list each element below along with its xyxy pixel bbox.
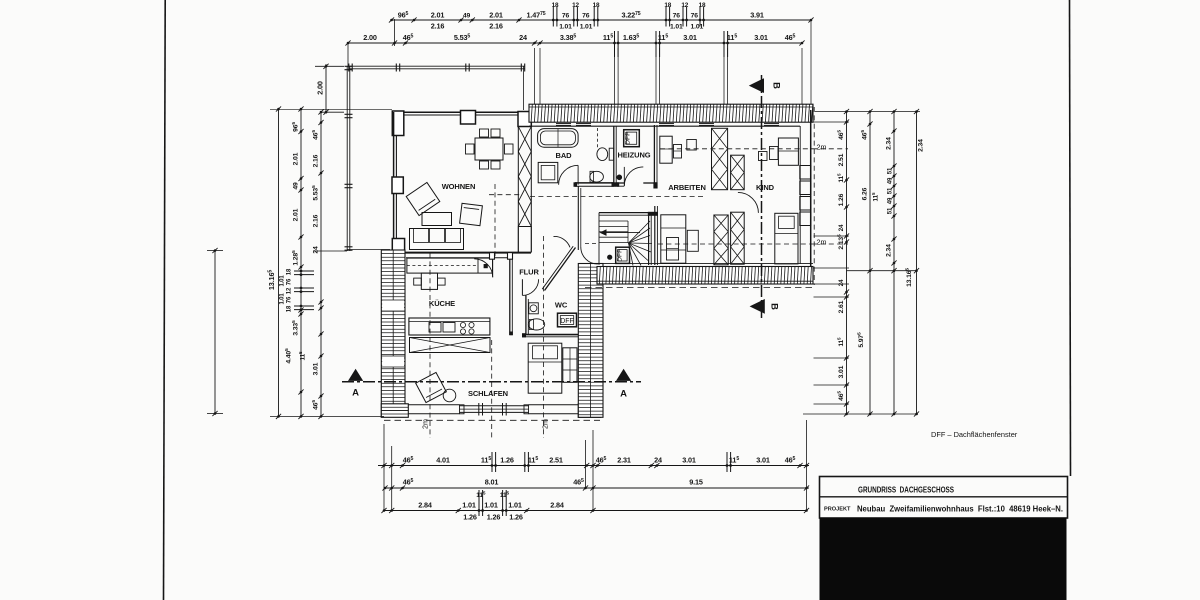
svg-text:115: 115 [836,173,845,182]
svg-text:1.635: 1.635 [623,33,640,42]
right dim bottom connector [803,413,918,415]
coffee table [422,213,452,226]
dimension row B values [403,478,703,487]
wall stairwell right outer [655,206,658,265]
side square arbeiten [687,230,698,251]
wall band bottom-right corner (hatched) [578,404,600,418]
DFF box WC [558,313,577,327]
svg-text:2m: 2m [817,238,827,247]
svg-text:76: 76 [582,13,590,20]
svg-text:115: 115 [481,456,491,465]
bed KIND [775,213,798,264]
dimension row B line and ticks [382,485,809,490]
wall BAD-HEIZUNG [614,126,616,186]
WC toilet [528,319,544,330]
wall cap BAD bottom right [612,182,617,187]
dashed window axis [491,340,493,438]
DFF box HEIZUNG [624,130,640,147]
dimension row 1 values [398,2,764,31]
bottom wall window right [529,405,579,414]
BAD toilet [590,171,604,182]
sill line above bottom band [585,263,813,265]
BAD washbasin [597,148,614,161]
roof overhang dashed bottom [384,419,600,421]
svg-text:1.01: 1.01 [280,275,286,287]
svg-text:KÜCHE: KÜCHE [429,299,455,308]
svg-text:18: 18 [287,268,293,275]
wall line below roof band [529,125,800,127]
dashed 2m line WOHNEN horizontal [489,194,521,196]
svg-text:WOHNEN: WOHNEN [442,182,476,191]
svg-text:2.01: 2.01 [293,152,300,165]
dimension row A line and ticks [378,452,809,472]
post WOHNEN top-mid [461,111,476,125]
svg-text:51: 51 [888,167,894,174]
desk arbeiten top [660,136,672,163]
svg-text:24: 24 [838,224,845,231]
right dim mid connector [847,270,918,272]
right extension stubs [814,122,850,404]
svg-text:GRUNDRISS DACHGESCHOSS: GRUNDRISS DACHGESCHOSS [858,486,954,495]
terrace top railing [349,64,525,72]
svg-text:76: 76 [287,278,293,285]
room label BAD [556,151,573,160]
svg-text:2m: 2m [817,143,827,152]
svg-text:2.16: 2.16 [431,22,445,31]
wall band bottom-left corner (hatched) [381,404,408,418]
svg-text:1.01: 1.01 [484,501,498,510]
door arc ARBEITEN-KIND [738,192,759,213]
pier chimney X-lattice [518,127,531,227]
section line B-B [761,75,763,318]
bottom wall mid strip [460,405,529,414]
extension lines rows to roof band [535,20,812,104]
svg-text:465: 465 [836,391,845,401]
door arc FLUR-WC [522,279,538,295]
svg-text:2.01: 2.01 [489,11,503,20]
right dashed 2m extensions [812,149,848,244]
dimension row C line and ticks [381,490,809,516]
left extension line top [270,108,392,110]
svg-text:18: 18 [593,2,600,9]
svg-text:DFF – Dachflächenfenster: DFF – Dachflächenfenster [931,430,1018,439]
svg-text:3.2275: 3.2275 [621,11,640,20]
monitor KIND [759,152,768,161]
svg-text:9.15: 9.15 [689,478,703,487]
wall HEIZUNG right [654,125,657,188]
pier X upper B [731,155,745,190]
hall door arc lower [581,247,598,264]
svg-text:465: 465 [311,400,320,410]
left dim column inner [280,106,315,419]
label 2m KIND bottom [817,238,827,247]
svg-text:12: 12 [287,287,293,294]
dimension row 2 line and ticks [345,31,804,57]
svg-text:1.26: 1.26 [463,513,477,522]
dimension row A values [403,456,796,465]
section line A-A [342,381,641,383]
left dim total 13.165 [267,106,281,419]
svg-text:465: 465 [403,456,414,465]
wall stairwell right [649,213,652,265]
svg-text:2.34: 2.34 [918,139,925,152]
svg-text:465: 465 [860,130,869,140]
svg-text:6.26: 6.26 [862,187,869,200]
svg-text:1.4775: 1.4775 [526,11,545,20]
bottom wall window left [408,405,459,414]
svg-text:465: 465 [596,456,607,465]
diagonal wall WC [542,246,575,290]
hall lines left of stairwell [578,186,599,250]
wall cap kitchen right [509,332,513,336]
svg-text:2.84: 2.84 [550,501,564,510]
post WOHNEN left-mid [392,177,403,194]
window in left band [381,300,405,367]
svg-text:4.405: 4.405 [284,348,293,364]
left extension line terrace [313,250,347,252]
svg-text:4.01: 4.01 [436,456,450,465]
svg-text:115: 115 [603,33,613,42]
svg-text:HEIZUNG: HEIZUNG [617,151,650,160]
left extension line bottom [270,415,384,417]
roof overhang dashed right bldg [585,287,813,289]
terrace right edge line [523,66,525,110]
svg-text:8.01: 8.01 [485,478,499,487]
dimension row 1 line and ticks [389,7,814,27]
svg-text:465: 465 [785,33,796,42]
svg-text:18: 18 [699,2,706,9]
section marker B top [749,78,782,93]
svg-text:465: 465 [403,33,414,42]
svg-text:12: 12 [681,2,688,9]
door arc WOHNEN-FLUR [554,236,571,247]
svg-text:ARBEITEN: ARBEITEN [668,183,706,192]
svg-text:B: B [769,303,780,310]
svg-text:1.26: 1.26 [838,193,845,206]
svg-text:B: B [771,82,782,89]
title block frame [820,477,1068,519]
bed [528,343,562,393]
svg-text:1.01: 1.01 [508,501,522,510]
left dim column outer [311,109,324,419]
wardrobe KIND wall stack [800,166,811,226]
svg-text:BAD: BAD [556,151,573,160]
svg-text:49: 49 [293,182,300,190]
svg-text:3.01: 3.01 [682,456,696,465]
svg-text:76: 76 [287,296,293,303]
wall cap WC bottom [522,333,526,337]
svg-text:2.16: 2.16 [313,154,320,167]
terrace bottom edge line [347,249,390,251]
svg-text:1.01: 1.01 [580,24,593,31]
svg-text:2.16: 2.16 [489,22,503,31]
kitchen door post right [508,253,513,260]
terrace left railing [345,66,353,251]
svg-text:2m: 2m [541,419,550,429]
svg-text:1.01: 1.01 [670,24,683,31]
dining table with chairs [466,129,514,169]
svg-text:A: A [352,388,359,399]
svg-text:A: A [620,389,627,400]
room label KUECHE [429,299,455,308]
kitchen door arc [474,259,493,278]
svg-text:2.84: 2.84 [418,501,432,510]
svg-text:465: 465 [785,456,796,465]
svg-text:76: 76 [673,13,681,20]
svg-text:115: 115 [528,456,538,465]
sheet left edge line [164,0,166,600]
stair winder right building [599,213,652,266]
dashed 2m line KIND [660,148,812,150]
label 2m left [421,419,430,429]
wall HEIZUNG bottom [616,183,657,186]
svg-text:18: 18 [552,2,559,9]
right dim column 3 [886,109,897,417]
title row PROJEKT label [824,507,851,513]
label 2m KIND top [817,143,827,152]
svg-text:2.01: 2.01 [293,208,300,221]
bathtub [538,129,579,148]
svg-text:18: 18 [664,2,671,9]
svg-text:DFF: DFF [617,249,624,262]
DFF box stairwell [616,247,630,263]
wall WOHNEN top (window band) [403,112,518,115]
kitchen upper counter [407,258,493,273]
svg-text:49: 49 [888,177,894,184]
extension lines bottom left [384,424,392,511]
room label WOHNEN [442,182,476,191]
svg-text:KIND: KIND [756,183,775,192]
svg-text:24: 24 [654,456,662,465]
svg-text:Neubau Zweifamilienwohnhaus: Neubau Zweifamilienwohnhaus Flst.:10 486… [857,505,1063,514]
chair arbeiten lower [667,238,679,261]
svg-text:115: 115 [658,33,668,42]
svg-text:2.34: 2.34 [886,137,893,150]
sofa [410,229,464,250]
svg-text:1.285: 1.285 [291,250,300,266]
svg-text:WC: WC [555,301,568,310]
svg-text:3.01: 3.01 [754,33,768,42]
armchair rotated [406,182,440,215]
wall cap BAD bottom left [574,182,578,187]
door arc BAD [559,165,579,185]
extension line terrace corner [348,19,395,66]
svg-text:24: 24 [838,279,845,286]
wall WOHNEN left (window band) [394,112,397,251]
room label WC [555,301,568,310]
svg-text:PROJEKT: PROJEKT [824,507,851,513]
title row project text [857,505,1063,514]
shower [538,162,558,182]
dimension row 2 values [363,33,795,42]
section marker A left [348,369,363,399]
svg-text:1.01: 1.01 [280,293,286,305]
wall WC left [526,296,528,336]
gallery railing X band [410,338,491,353]
kitchen table [414,273,445,289]
svg-text:DFF: DFF [560,318,574,325]
svg-text:5.975: 5.975 [856,332,865,348]
svg-text:76: 76 [691,13,699,20]
dashed 2m line lower [658,243,812,245]
svg-text:465: 465 [836,130,845,140]
kitchen wall right [510,259,513,335]
svg-text:51: 51 [888,187,894,194]
svg-text:76: 76 [562,13,570,20]
svg-text:465: 465 [573,478,584,487]
label 2m right [541,419,550,429]
dimension row C values [418,490,564,521]
svg-text:2m: 2m [421,419,430,429]
svg-text:2.01: 2.01 [431,11,445,20]
svg-text:115: 115 [871,192,880,201]
WC washbasin [529,303,539,314]
section marker B bottom [750,299,780,314]
svg-text:965: 965 [291,122,300,132]
svg-text:18: 18 [287,305,293,312]
armchair schlafen rotated [416,372,447,402]
svg-text:115: 115 [476,490,486,499]
wall WOHNEN/KUECHE [384,253,531,258]
room label KIND [756,183,775,192]
shower partition dashed [597,128,599,148]
svg-text:3.385: 3.385 [560,33,577,42]
door arc HEIZUNG [624,167,643,186]
sheet right edge line [1070,0,1071,476]
wall cap HEIZUNG left [616,182,619,187]
left outer reference line [207,248,223,416]
room label ARBEITEN [668,183,706,192]
armchair 2 [460,203,483,225]
wall right building east [800,110,811,267]
svg-text:115: 115 [729,456,739,465]
wall cap HEIZUNG right [653,182,657,188]
svg-text:3.01: 3.01 [756,456,770,465]
redacted black rectangle [820,518,1067,600]
wall cap stairwell [648,212,658,216]
svg-text:3.01: 3.01 [683,33,697,42]
kitchen lower counter with sink and stove [409,318,490,335]
dashed 2m line right bldg upper [530,195,704,197]
boiler dot [617,175,622,180]
svg-text:115: 115 [836,337,845,346]
svg-text:2.00: 2.00 [363,33,377,42]
svg-text:2.51: 2.51 [549,456,563,465]
right dim column 2 [856,109,879,417]
chair KIND [770,147,779,160]
svg-text:2.51: 2.51 [838,153,845,166]
svg-text:1.26: 1.26 [509,513,523,522]
room label SCHLAFEN [468,389,508,398]
post WOHNEN top-right [518,112,531,127]
party wall band (hatched) [578,264,603,418]
svg-text:24: 24 [313,246,320,254]
bottom wall window marks [479,403,506,416]
roof band bottom (hatched) [597,267,813,285]
wardrobe schlafen [563,348,577,383]
right dim top connector [815,111,920,113]
wall stub below pier [518,227,531,253]
svg-text:49: 49 [463,13,471,20]
svg-text:2.34: 2.34 [886,244,893,257]
svg-text:465: 465 [403,478,414,487]
svg-text:51: 51 [888,207,894,214]
svg-text:1.26: 1.26 [487,513,501,522]
roof band top (hatched) [529,104,813,122]
pier X lower A [714,215,728,265]
desk KIND [778,138,798,165]
svg-text:3.01: 3.01 [313,362,320,375]
desk arbeiten lower [661,215,686,263]
right dim column 1 [836,109,849,417]
svg-text:5.535: 5.535 [454,33,471,42]
svg-text:2.31: 2.31 [617,456,631,465]
svg-text:115: 115 [727,33,737,42]
svg-text:12: 12 [572,2,579,9]
svg-text:115: 115 [298,351,307,360]
stair direction arrow [600,229,641,236]
post WOHNEN top-left corner [392,111,404,136]
post WOHNEN left-bottom [392,239,404,254]
window marks top wall [556,123,779,125]
svg-text:3.91: 3.91 [750,11,764,20]
extension line bottom right [806,420,808,511]
side table round [443,389,456,402]
svg-text:965: 965 [398,11,409,20]
left 2.00 dim [315,64,344,115]
svg-text:1.26: 1.26 [500,456,514,465]
right dim column 4 [904,109,924,417]
dashed eave line east [813,107,815,285]
svg-text:FLUR: FLUR [519,268,539,277]
svg-text:3.01: 3.01 [838,365,845,378]
dashed 2m line right [543,236,545,438]
svg-text:1.01: 1.01 [462,501,476,510]
svg-text:SCHLAFEN: SCHLAFEN [468,389,508,398]
dashed 2m line WOHNEN vertical [494,184,496,258]
stair dot [608,255,612,259]
extension lines bottom mid [586,430,594,511]
monitor arbeiten [687,140,697,151]
svg-text:115: 115 [500,490,510,499]
svg-text:5.535: 5.535 [311,185,320,201]
svg-text:2.16: 2.16 [313,214,320,227]
kitchen counter mid line [407,265,478,267]
pier X upper A [712,128,728,189]
note DFF Dachflaechenfenster [931,430,1018,439]
section marker A right [616,369,631,400]
pier X lower B [731,212,745,264]
svg-text:49: 49 [888,197,894,204]
svg-text:1.01: 1.01 [559,24,572,31]
svg-text:13.165: 13.165 [267,270,276,290]
wall band left (hatched) [381,250,405,417]
wall BAD bottom [575,183,614,186]
chair arbeiten top [674,145,682,159]
svg-text:2.00: 2.00 [316,81,325,95]
svg-text:24: 24 [519,33,527,42]
wall WC bottom [522,335,578,337]
dashed 2m line left [429,253,431,438]
title text GRUNDRISS DACHGESCHOSS [858,486,954,495]
room label HEIZUNG [617,151,650,160]
room label FLUR [519,268,539,277]
svg-text:465: 465 [311,130,320,140]
svg-text:3.335: 3.335 [291,320,300,336]
svg-text:DFF: DFF [625,132,632,145]
kitchen door post left [490,253,495,260]
svg-text:1.01: 1.01 [690,24,703,31]
